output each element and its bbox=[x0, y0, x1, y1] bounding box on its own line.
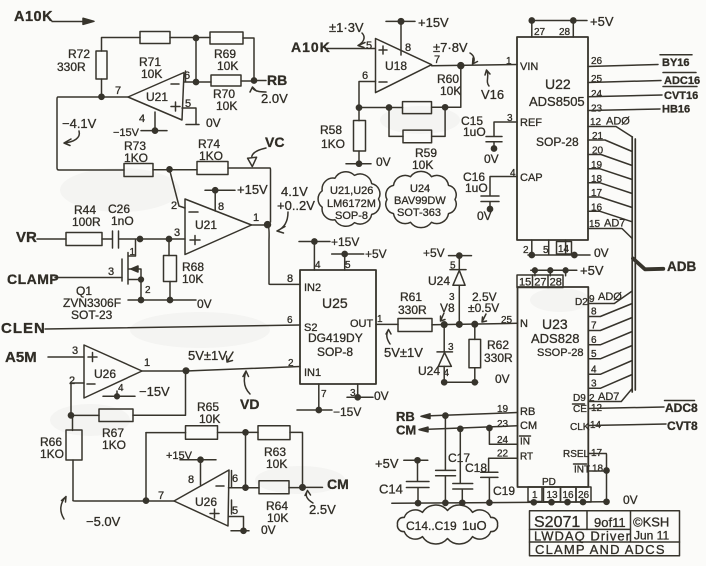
resistor R74 bbox=[197, 137, 228, 175]
resistor R58 bbox=[320, 108, 366, 164]
svg-text:0V: 0V bbox=[376, 155, 391, 169]
svg-text:C14: C14 bbox=[379, 482, 403, 497]
svg-text:1uO: 1uO bbox=[463, 125, 486, 139]
capacitor C19 bbox=[481, 472, 516, 503]
junction top rail bbox=[193, 35, 198, 82]
svg-text:10K: 10K bbox=[412, 158, 433, 172]
svg-text:8: 8 bbox=[218, 201, 224, 213]
capacitor C15 bbox=[461, 114, 517, 151]
svg-text:10K: 10K bbox=[199, 412, 220, 426]
node CLEN bbox=[1, 320, 300, 337]
wire U26b feedback junction bbox=[229, 432, 260, 490]
svg-text:CE: CE bbox=[573, 404, 587, 415]
svg-text:IN2: IN2 bbox=[304, 282, 321, 294]
svg-text:28: 28 bbox=[559, 27, 571, 38]
svg-text:7: 7 bbox=[158, 490, 164, 502]
svg-text:U21,U26: U21,U26 bbox=[330, 185, 373, 197]
svg-text:BAV99DW: BAV99DW bbox=[394, 195, 446, 207]
svg-text:ADB: ADB bbox=[667, 259, 696, 274]
pin 4 bbox=[588, 361, 632, 376]
svg-text:U23: U23 bbox=[542, 316, 568, 332]
annotation 2.0V bbox=[250, 87, 288, 106]
svg-text:U21: U21 bbox=[146, 90, 168, 104]
svg-text:U26: U26 bbox=[94, 367, 116, 381]
svg-text:VC: VC bbox=[265, 134, 284, 150]
annotation V8 bbox=[440, 301, 455, 321]
ground 0V U22 bottom bbox=[523, 240, 609, 260]
ground 0V at C16 bbox=[477, 209, 492, 223]
power -15V at U26a pin4 bbox=[103, 384, 170, 399]
svg-text:±1·3V: ±1·3V bbox=[329, 20, 364, 35]
svg-text:A10K: A10K bbox=[291, 39, 331, 55]
svg-text:1: 1 bbox=[130, 247, 136, 258]
svg-text:2: 2 bbox=[145, 285, 151, 296]
svg-text:24: 24 bbox=[497, 435, 509, 446]
annotation V16 bbox=[481, 70, 504, 102]
wire U18 inverting to feedback bbox=[356, 82, 375, 111]
annotation VD bbox=[240, 371, 259, 412]
svg-text:0V: 0V bbox=[495, 372, 510, 386]
resistor R64 bbox=[259, 481, 305, 525]
pin 12 net AD0 bbox=[588, 116, 632, 138]
svg-text:−15V: −15V bbox=[333, 405, 361, 419]
annotation -4.1V bbox=[62, 116, 97, 146]
resistor R66 bbox=[40, 415, 82, 500]
resistor R68 bbox=[164, 241, 205, 300]
svg-text:SOT-23: SOT-23 bbox=[71, 308, 113, 322]
power +5V at U25 pin5 bbox=[332, 247, 387, 270]
resistor R72 bbox=[57, 47, 107, 79]
resistor R60 label bbox=[437, 72, 461, 98]
pin 15 net AD7 bbox=[588, 218, 632, 239]
svg-text:−15V: −15V bbox=[139, 384, 170, 399]
svg-text:5V±1V: 5V±1V bbox=[384, 345, 423, 360]
power +5V at C14 bbox=[375, 456, 428, 481]
svg-text:+15V: +15V bbox=[331, 235, 359, 249]
svg-text:3: 3 bbox=[108, 266, 114, 278]
svg-text:7: 7 bbox=[115, 85, 121, 97]
ground 0V rail Q1/R68 bbox=[128, 297, 212, 311]
svg-text:+5V: +5V bbox=[423, 246, 445, 260]
svg-text:2: 2 bbox=[171, 200, 177, 212]
svg-text:U25: U25 bbox=[322, 295, 348, 311]
power -15V at U21a pin4 bbox=[113, 112, 167, 139]
svg-text:3: 3 bbox=[448, 342, 454, 353]
ground 0V at U25 pin3 bbox=[347, 384, 389, 403]
svg-text:+5V: +5V bbox=[580, 263, 604, 278]
svg-text:1: 1 bbox=[506, 56, 512, 67]
svg-text:U21: U21 bbox=[195, 218, 217, 232]
svg-text:27: 27 bbox=[534, 27, 546, 38]
svg-text:OUT: OUT bbox=[350, 318, 374, 330]
svg-text:RB: RB bbox=[267, 72, 287, 88]
svg-text:RT: RT bbox=[520, 452, 533, 463]
svg-text:ADC16: ADC16 bbox=[664, 75, 700, 87]
pin 8 bbox=[588, 304, 632, 318]
svg-text:±0.5V: ±0.5V bbox=[468, 301, 499, 315]
svg-text:330R: 330R bbox=[57, 60, 86, 74]
IC U23 ADS828 bbox=[501, 287, 590, 488]
power +15V at U25 pin4 bbox=[299, 235, 359, 270]
svg-text:0V: 0V bbox=[261, 523, 276, 537]
resistor R73 bbox=[124, 139, 153, 177]
svg-text:0V: 0V bbox=[477, 209, 492, 223]
svg-text:HB16: HB16 bbox=[662, 104, 690, 116]
svg-text:−4.1V: −4.1V bbox=[62, 116, 97, 131]
svg-text:−5.0V: −5.0V bbox=[86, 514, 121, 529]
svg-text:4: 4 bbox=[510, 168, 516, 179]
svg-text:+5V: +5V bbox=[365, 247, 387, 261]
diode U24a bbox=[428, 261, 466, 325]
wire inverting input U21a bbox=[184, 79, 254, 84]
power +5V at diode U24a bbox=[423, 246, 472, 270]
pin 18 bbox=[588, 174, 632, 194]
resistor R71 bbox=[139, 32, 170, 82]
node RB bbox=[251, 72, 287, 88]
svg-text:R61: R61 bbox=[400, 290, 422, 304]
node VC output junction bbox=[252, 222, 301, 285]
svg-text:U24: U24 bbox=[418, 364, 440, 378]
pin 17 bbox=[588, 188, 632, 208]
svg-text:13: 13 bbox=[547, 490, 559, 501]
svg-text:N: N bbox=[520, 318, 528, 330]
svg-text:RSEL: RSEL bbox=[563, 449, 590, 460]
svg-text:7: 7 bbox=[434, 54, 440, 66]
annotation 2.5V bbox=[305, 491, 336, 518]
pins 15 27 28 of U23 bbox=[517, 275, 563, 289]
svg-text:1nO: 1nO bbox=[111, 214, 134, 228]
svg-text:+15V: +15V bbox=[166, 450, 193, 462]
svg-text:LM6172M: LM6172M bbox=[327, 198, 376, 210]
svg-text:19: 19 bbox=[497, 404, 509, 415]
svg-text:1uO: 1uO bbox=[465, 181, 488, 195]
wire R73 to R74 bbox=[153, 167, 197, 172]
svg-text:D2: D2 bbox=[575, 297, 588, 308]
capacitor C26 bbox=[102, 202, 140, 248]
wire top feedback rail bbox=[102, 38, 255, 97]
svg-text:1KO: 1KO bbox=[102, 438, 126, 452]
svg-text:1: 1 bbox=[144, 357, 150, 369]
svg-text:SOP-8: SOP-8 bbox=[317, 345, 353, 359]
svg-text:U18: U18 bbox=[385, 59, 407, 73]
svg-text:14: 14 bbox=[558, 244, 570, 255]
svg-text:4: 4 bbox=[118, 383, 124, 394]
annotation 2.5V ±0.5V bbox=[468, 290, 499, 322]
svg-text:1: 1 bbox=[253, 212, 259, 224]
node A10K (U18 input) bbox=[291, 39, 375, 55]
ground 0V diode rail bbox=[442, 372, 510, 386]
svg-text:330R: 330R bbox=[398, 303, 427, 317]
resistor R63 bbox=[243, 426, 303, 488]
svg-text:24: 24 bbox=[591, 89, 603, 100]
ground 0V at U26b pin5 bbox=[229, 517, 276, 538]
svg-text:0V: 0V bbox=[623, 493, 638, 507]
svg-text:U24: U24 bbox=[410, 183, 430, 195]
svg-text:2.0V: 2.0V bbox=[261, 91, 288, 106]
svg-text:D9: D9 bbox=[573, 393, 586, 404]
svg-text:SOP-8: SOP-8 bbox=[335, 210, 368, 222]
ground 0V at U21a pin5 bbox=[182, 108, 221, 130]
pin 9 net AD0 bbox=[588, 291, 632, 305]
svg-text:ADS828: ADS828 bbox=[531, 331, 579, 346]
op-amp U26 second bbox=[158, 470, 238, 526]
svg-text:0V: 0V bbox=[374, 389, 389, 403]
svg-text:CLK: CLK bbox=[570, 422, 590, 433]
svg-text:3: 3 bbox=[449, 292, 455, 303]
bus ADB band bbox=[632, 137, 635, 392]
svg-text:3: 3 bbox=[72, 345, 78, 357]
svg-text:IN: IN bbox=[520, 437, 530, 448]
svg-text:VD: VD bbox=[240, 396, 259, 412]
capacitor C16 bbox=[463, 170, 517, 212]
svg-text:R72: R72 bbox=[68, 47, 90, 61]
svg-text:2: 2 bbox=[523, 245, 529, 256]
svg-text:CLEN: CLEN bbox=[1, 320, 46, 337]
svg-text:AD7: AD7 bbox=[604, 218, 625, 230]
svg-text:5V±1V: 5V±1V bbox=[188, 348, 227, 363]
svg-text:INT: INT bbox=[574, 465, 590, 476]
svg-text:18: 18 bbox=[592, 464, 604, 475]
node CM (U26b output) bbox=[303, 476, 349, 492]
svg-text:VIN: VIN bbox=[520, 61, 538, 73]
wire U26a output to U25 IN1 bbox=[142, 367, 300, 374]
svg-text:+5V: +5V bbox=[375, 456, 399, 471]
svg-text:V8: V8 bbox=[440, 301, 455, 315]
wire U21a output to left rail bbox=[57, 94, 128, 170]
svg-text:1KO: 1KO bbox=[199, 149, 223, 163]
op-amp U26 first bbox=[69, 345, 150, 398]
power +15V at U26b pin8 bbox=[166, 450, 216, 485]
svg-text:C19: C19 bbox=[493, 484, 515, 498]
svg-text:4.1V: 4.1V bbox=[281, 184, 308, 199]
svg-text:CAP: CAP bbox=[520, 172, 543, 184]
wire U26a pin2 feedback bbox=[68, 383, 84, 418]
IC U25 DG419DY bbox=[287, 260, 383, 400]
pin 3 bbox=[588, 375, 632, 390]
pin 18 INT bbox=[588, 464, 609, 475]
pin 14 net CVT8 bbox=[588, 419, 698, 433]
svg-text:BY16: BY16 bbox=[662, 57, 690, 69]
svg-text:+15V: +15V bbox=[237, 182, 268, 197]
wire C26 to U21b pin3 bbox=[137, 236, 185, 241]
resistor R70 bbox=[211, 75, 241, 113]
svg-text:CM: CM bbox=[520, 420, 537, 432]
svg-text:1KO: 1KO bbox=[124, 151, 148, 165]
resistor R69 bbox=[210, 32, 243, 73]
svg-text:5: 5 bbox=[345, 260, 351, 271]
svg-text:1KO: 1KO bbox=[40, 447, 64, 461]
resistor R59 (bottom parallel) bbox=[389, 107, 445, 172]
ground 0V at R58 bbox=[346, 155, 391, 169]
svg-text:1KO: 1KO bbox=[321, 137, 345, 151]
pin 24 net CVT16 bbox=[588, 87, 698, 103]
svg-text:ADC8: ADC8 bbox=[665, 401, 698, 415]
pin 16 bbox=[588, 203, 632, 222]
svg-text:2.5V: 2.5V bbox=[309, 502, 336, 517]
IC U22 ADS8505 bbox=[506, 27, 588, 240]
svg-text:CVT8: CVT8 bbox=[667, 419, 698, 433]
pin 19 bbox=[588, 160, 632, 180]
resistor R61 bbox=[376, 290, 432, 332]
pin 2 net AD7 bbox=[588, 389, 632, 405]
cloud note C14..C19 1uO bbox=[397, 505, 497, 544]
svg-text:C14..C19: C14..C19 bbox=[406, 519, 457, 533]
svg-text:0V: 0V bbox=[484, 152, 499, 166]
pin 21 bbox=[588, 131, 632, 152]
resistor R65 bbox=[146, 400, 246, 439]
svg-text:DG419DY: DG419DY bbox=[308, 331, 363, 345]
svg-text:10K: 10K bbox=[182, 272, 203, 286]
svg-text:6: 6 bbox=[362, 70, 368, 82]
annotation 4.1V +0..2V bbox=[277, 184, 315, 233]
pin 23 net HB16 bbox=[588, 104, 690, 116]
svg-text:IN1: IN1 bbox=[304, 367, 321, 379]
power +5V rail to U23 bbox=[531, 263, 604, 278]
svg-text:C18: C18 bbox=[465, 461, 487, 475]
op-amp U18 bbox=[362, 39, 440, 93]
svg-text:25: 25 bbox=[591, 74, 603, 85]
svg-text:8: 8 bbox=[405, 42, 411, 54]
resistor R60 (top parallel) bbox=[359, 66, 461, 114]
svg-text:100R: 100R bbox=[72, 215, 101, 229]
annotation 5V±1V (U25 out) bbox=[384, 330, 423, 361]
power +15V at U18 pin8 bbox=[386, 15, 449, 55]
capacitor C18 bbox=[453, 429, 488, 503]
svg-text:U24: U24 bbox=[428, 274, 450, 288]
svg-text:10K: 10K bbox=[217, 59, 238, 73]
svg-text:+0..2V: +0..2V bbox=[277, 198, 315, 213]
svg-text:0V: 0V bbox=[206, 116, 221, 130]
title block bbox=[530, 511, 680, 557]
svg-text:CVT16: CVT16 bbox=[664, 90, 698, 102]
svg-text:1: 1 bbox=[377, 314, 383, 325]
ground 0V at C15 bbox=[484, 152, 499, 166]
svg-text:6: 6 bbox=[232, 473, 238, 485]
svg-text:+5V: +5V bbox=[590, 14, 614, 29]
pin 26 net BY16 bbox=[588, 55, 692, 69]
svg-text:6: 6 bbox=[287, 315, 293, 326]
svg-text:23: 23 bbox=[591, 104, 603, 115]
node VC bbox=[228, 134, 284, 222]
svg-text:10K: 10K bbox=[266, 457, 287, 471]
op-amp U21 first bbox=[115, 70, 191, 125]
svg-text:8: 8 bbox=[188, 474, 194, 486]
svg-text:CLAMP: CLAMP bbox=[7, 271, 59, 287]
wire pin24 tie to CM bbox=[489, 429, 517, 447]
wire pin22 to C19 bbox=[489, 449, 518, 472]
annotation -5.0V bbox=[61, 497, 121, 530]
svg-text:8: 8 bbox=[287, 273, 293, 285]
svg-text:1: 1 bbox=[532, 490, 538, 501]
pin 25 net ADC16 bbox=[588, 73, 700, 88]
wire U18 output to U22 VIN bbox=[432, 63, 517, 69]
svg-text:10K: 10K bbox=[440, 84, 461, 98]
annotation ±1.3V bbox=[329, 20, 365, 48]
pin 7 bbox=[588, 318, 632, 332]
pin 5 bbox=[588, 346, 632, 361]
capacitor C17 bbox=[436, 416, 471, 504]
svg-text:©KSH: ©KSH bbox=[633, 515, 669, 530]
node RB to U23 pin19 bbox=[396, 404, 518, 424]
svg-text:CM: CM bbox=[396, 423, 416, 438]
svg-text:26: 26 bbox=[591, 56, 603, 67]
svg-text:10K: 10K bbox=[216, 99, 237, 113]
node CLAMP bbox=[7, 271, 122, 287]
svg-text:4: 4 bbox=[315, 260, 321, 271]
wire V8 node to U23 pin25 bbox=[432, 321, 518, 327]
pin 6 bbox=[588, 332, 632, 347]
svg-text:2: 2 bbox=[69, 375, 75, 387]
svg-text:26: 26 bbox=[578, 490, 590, 501]
svg-text:SOT-363: SOT-363 bbox=[397, 207, 441, 219]
wire R66 bottom to U26b pin7 bbox=[73, 500, 174, 503]
svg-text:4: 4 bbox=[139, 113, 145, 125]
node VR bbox=[16, 229, 66, 246]
pins 1 13 16 26 of U23 bottom bbox=[528, 487, 591, 502]
svg-text:±7·8V: ±7·8V bbox=[433, 40, 468, 55]
svg-text:+15V: +15V bbox=[418, 15, 449, 30]
cloud note U21 U26 LM6172M SOP-8 bbox=[318, 172, 380, 227]
resistor R67 bbox=[71, 371, 186, 452]
cloud note U24 BAV99DW SOT-363 bbox=[386, 171, 456, 227]
resistor R44 bbox=[66, 203, 102, 246]
svg-text:ADØ: ADØ bbox=[606, 116, 630, 128]
node CM to U23 pin23 bbox=[396, 419, 518, 438]
svg-text:5: 5 bbox=[450, 261, 456, 272]
svg-text:330R: 330R bbox=[484, 351, 513, 365]
svg-text:R62: R62 bbox=[487, 338, 509, 352]
svg-text:V16: V16 bbox=[481, 87, 504, 102]
ground 0V bottom rail bbox=[392, 493, 638, 507]
svg-text:7: 7 bbox=[321, 389, 327, 400]
svg-text:SOP-28: SOP-28 bbox=[536, 135, 579, 149]
diode U24b bbox=[418, 325, 454, 383]
svg-text:U22: U22 bbox=[545, 76, 571, 92]
svg-text:25: 25 bbox=[501, 315, 513, 326]
svg-text:RB: RB bbox=[520, 406, 535, 418]
svg-text:U26: U26 bbox=[195, 495, 217, 509]
wire R65 to U26b pin7 bbox=[143, 433, 148, 504]
svg-text:CM: CM bbox=[327, 476, 349, 492]
svg-text:CLAMP AND ADCS: CLAMP AND ADCS bbox=[535, 542, 666, 557]
pin 12 net ADC8 bbox=[588, 401, 698, 416]
node ADB arrow bbox=[633, 259, 696, 275]
svg-text:0V: 0V bbox=[197, 297, 212, 311]
svg-text:23: 23 bbox=[497, 419, 509, 430]
power +5V at U22 top bbox=[529, 14, 614, 37]
node A10K (top-left) bbox=[14, 9, 94, 25]
svg-text:22: 22 bbox=[497, 449, 509, 460]
svg-text:ADS8505: ADS8505 bbox=[529, 94, 585, 109]
svg-text:5: 5 bbox=[366, 40, 372, 52]
svg-text:Jun 11: Jun 11 bbox=[634, 529, 669, 543]
svg-text:3: 3 bbox=[174, 227, 180, 239]
pin 17 RSEL bbox=[588, 448, 606, 502]
node A5M bbox=[5, 349, 84, 366]
power -15V at U25 pin7 bbox=[297, 384, 361, 419]
svg-text:A10K: A10K bbox=[14, 9, 53, 25]
svg-text:R58: R58 bbox=[320, 123, 342, 137]
transistor Q1 bbox=[63, 240, 151, 322]
svg-text:−15V: −15V bbox=[113, 127, 140, 139]
svg-text:16: 16 bbox=[563, 490, 575, 501]
svg-text:10K: 10K bbox=[141, 67, 162, 81]
svg-text:0V: 0V bbox=[594, 246, 609, 260]
pin 20 bbox=[588, 146, 632, 166]
op-amp U21 second bbox=[171, 199, 259, 255]
annotation 5V±1V bbox=[188, 348, 233, 363]
svg-text:SSOP-28: SSOP-28 bbox=[537, 347, 583, 359]
